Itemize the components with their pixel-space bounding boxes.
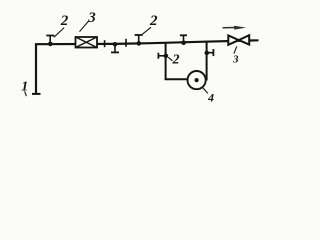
svg-text:3: 3 <box>87 10 96 26</box>
svg-text:2: 2 <box>149 13 158 29</box>
svg-text:4: 4 <box>207 90 214 104</box>
svg-text:2: 2 <box>60 13 69 29</box>
svg-text:3: 3 <box>232 53 239 65</box>
svg-text:2: 2 <box>172 53 180 68</box>
